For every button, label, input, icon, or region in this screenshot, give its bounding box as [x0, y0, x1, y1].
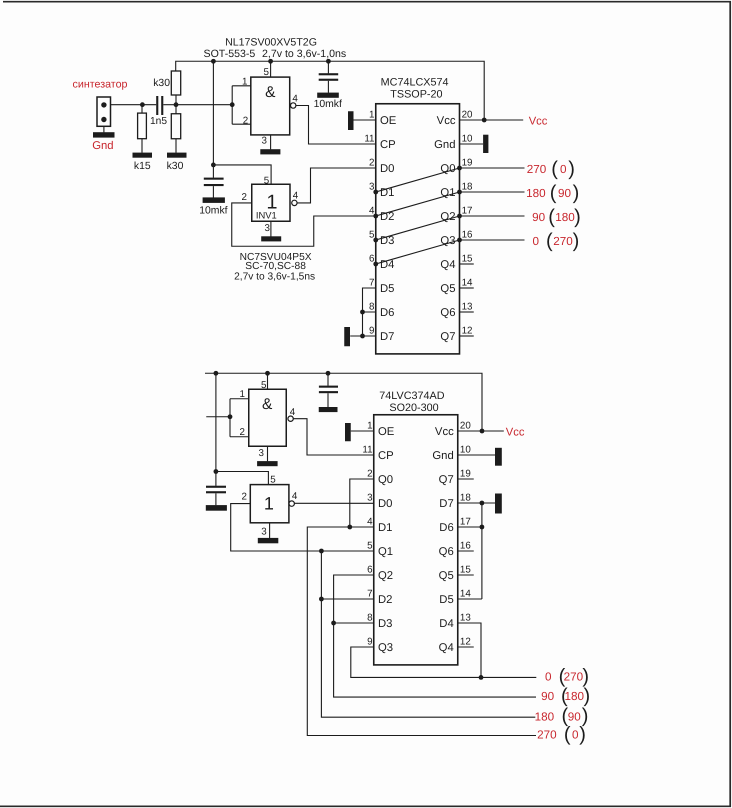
wire: U6 D4 to output line 0 [458, 623, 481, 677]
pin 4 of U5 (inverting output) [289, 501, 294, 506]
node: rail / inverter-supply junction [211, 59, 216, 64]
wire: U6 Q1 to U5 input [231, 504, 374, 551]
svg-text:D2: D2 [378, 594, 392, 606]
ground at U2 pin 3 [261, 236, 281, 241]
wire: Vcc rail (top section) [176, 61, 485, 120]
node: line 0 / D4 junction [479, 675, 484, 680]
pin 3 of U2 [270, 221, 272, 236]
svg-text:180: 180 [535, 710, 555, 723]
svg-text:4: 4 [367, 517, 373, 528]
svg-text:7: 7 [367, 589, 372, 600]
svg-text:5: 5 [270, 474, 276, 485]
pin 5 of U4 [267, 373, 269, 389]
diagonal: U3 Q3 feedback to D4 [376, 240, 460, 264]
svg-text:k30: k30 [167, 161, 184, 172]
ground at k15 [133, 153, 153, 158]
pin 4 of U4 (inverting output) [288, 416, 293, 421]
svg-text:): ) [582, 665, 589, 687]
wire: U1 output to U3 CP [296, 106, 376, 145]
svg-text:): ) [584, 685, 591, 707]
wire: rail to bottom supply node [215, 373, 217, 471]
diagonal: U3 Q0 feedback to D1 [376, 168, 460, 192]
capacitor 1n5 [156, 96, 158, 115]
svg-text:13: 13 [462, 302, 473, 313]
pin 4 of U2 (inverting output) [292, 200, 297, 205]
svg-text:OE: OE [378, 426, 395, 438]
tie bar at U6 D7 [495, 494, 502, 514]
wire: U6 D7 to tie bar [458, 502, 495, 504]
svg-text:0: 0 [572, 729, 579, 742]
svg-text:Vcc: Vcc [435, 426, 454, 438]
svg-text:9: 9 [369, 326, 374, 337]
svg-text:D3: D3 [378, 618, 392, 630]
svg-text:D7: D7 [439, 498, 453, 510]
svg-text:D5: D5 [439, 594, 453, 606]
capacitor 10mkf (rail bypass) [327, 61, 329, 73]
wire: U6 Q0 to D1 feedback [350, 479, 374, 527]
wire: U6 Q2 to D3 and output line 90 [334, 575, 536, 697]
svg-text:NL17SV00XV5T2G: NL17SV00XV5T2G [225, 37, 317, 49]
wire: rail to inverter supply node [212, 61, 214, 165]
svg-text:SOT-553-5: SOT-553-5 [204, 48, 256, 60]
resistor k30 (pull-up) [171, 71, 180, 95]
pin stub U3 Q7 [460, 335, 474, 337]
IC U6 74LVC374AD body [374, 415, 458, 665]
inverter U5 (bottom) [250, 485, 289, 523]
svg-text:Vcc: Vcc [529, 116, 548, 128]
svg-text:10: 10 [462, 134, 473, 145]
resistor k30 (pull-down) [175, 105, 177, 114]
pin 3 of U5 [269, 523, 271, 538]
svg-text:4: 4 [290, 407, 296, 418]
node: U3 Q0 [457, 166, 462, 171]
svg-text:OE: OE [380, 115, 397, 127]
node: k30 bias junction [174, 102, 179, 107]
svg-text:&: & [262, 396, 273, 413]
node: U1 input bracket junction [230, 102, 235, 107]
and-gate U1 (NL17SV00) [232, 86, 251, 124]
node: U6 D2 junction [319, 597, 324, 602]
node: inverter supply junction [211, 163, 216, 168]
wire: U6 D2 tie [321, 598, 373, 600]
svg-text:Q1: Q1 [440, 187, 455, 199]
node: k15 junction [140, 102, 145, 107]
tie-low bar at U6 OE [345, 423, 351, 441]
svg-text:Q6: Q6 [440, 307, 455, 319]
wire: U3 D5-D6-D7 tie [350, 288, 376, 336]
wire: 1n5 to k30 node [163, 104, 176, 106]
svg-text:): ) [579, 724, 586, 746]
node: U3 Vcc junction [482, 118, 487, 123]
svg-text:1: 1 [242, 76, 247, 87]
wire: U6 D3 tie [334, 622, 374, 624]
svg-text:2,7v to 3,6v-1,0ns: 2,7v to 3,6v-1,0ns [262, 48, 346, 60]
svg-text:синтезатор: синтезатор [73, 79, 128, 91]
svg-text:Q2: Q2 [378, 570, 393, 582]
svg-text:D6: D6 [439, 522, 453, 534]
svg-text:(: ( [564, 724, 571, 746]
node: D7 tie junction [360, 334, 365, 339]
wire: U6 Q3 to output line 0 [351, 647, 537, 677]
pin stub U6 Q7 [458, 478, 474, 480]
node: rail / bypass cap junction [326, 59, 331, 64]
svg-text:D1: D1 [378, 522, 392, 534]
svg-text:0: 0 [532, 235, 539, 248]
wire: U6 Vcc to rail and Vcc label [458, 430, 504, 432]
svg-text:10: 10 [460, 445, 471, 456]
svg-text:CP: CP [380, 139, 396, 151]
IC U3 MC74LCX574 body [376, 104, 460, 354]
svg-text:2: 2 [369, 158, 374, 169]
svg-text:15: 15 [460, 565, 471, 576]
node: U3 D2 [373, 214, 378, 219]
svg-text:3: 3 [261, 135, 267, 146]
svg-text:16: 16 [462, 230, 473, 241]
svg-text:270: 270 [537, 729, 557, 742]
svg-text:13: 13 [460, 613, 471, 624]
capacitor 10mkf (inverter supply) [212, 165, 214, 178]
wire: bar to U6 OE [351, 430, 374, 432]
svg-text:5: 5 [264, 175, 270, 186]
wire: U6 D7-D6-D5 tie [458, 503, 482, 599]
svg-text:1: 1 [264, 494, 274, 514]
wire: U6 Gnd to ground bar [458, 454, 495, 456]
svg-text:Vcc: Vcc [506, 427, 525, 439]
svg-text:90: 90 [532, 211, 546, 224]
svg-text:INV1: INV1 [256, 210, 277, 221]
svg-text:Q1: Q1 [378, 546, 393, 558]
svg-text:1: 1 [240, 389, 245, 400]
svg-text:D7: D7 [380, 331, 394, 343]
svg-text:Gnd: Gnd [432, 450, 453, 462]
node: U3 D1 [373, 190, 378, 195]
svg-text:Q3: Q3 [440, 235, 455, 247]
pin stub U3 Q4 [460, 263, 474, 265]
svg-text:D6: D6 [380, 307, 394, 319]
svg-text:D0: D0 [378, 498, 392, 510]
svg-text:1: 1 [367, 421, 372, 432]
svg-text:Q4: Q4 [440, 259, 455, 271]
svg-text:2,7v to 3,6v-1,5ns: 2,7v to 3,6v-1,5ns [234, 271, 315, 282]
svg-text:): ) [573, 182, 580, 204]
node: U3 Q1 [457, 190, 462, 195]
ground bar at U6 Gnd [495, 448, 502, 466]
node: rail / U1 pin5 junction [268, 59, 273, 64]
svg-text:3: 3 [265, 223, 271, 234]
pin 3 of U1 [270, 135, 272, 150]
svg-text:6: 6 [367, 565, 373, 576]
ground at 10mkf bypass [317, 93, 339, 98]
wire: U3 Q3 output 0 [460, 239, 525, 241]
pin 3 of U4 [267, 446, 269, 461]
node: U3 Q2 [457, 214, 462, 219]
node: bottom inverter supply junction [214, 469, 219, 474]
wire: U3 Q1 output 180 [460, 191, 525, 193]
svg-text:10mkf: 10mkf [199, 205, 227, 216]
svg-text:D4: D4 [439, 618, 453, 630]
node: U3 Q3 [457, 238, 462, 243]
wire: U3 Q0 output 270 [460, 167, 525, 169]
diagonal: U3 Q1 feedback to D2 [376, 192, 460, 216]
svg-text:(: ( [551, 158, 558, 180]
svg-text:D0: D0 [380, 163, 394, 175]
svg-text:4: 4 [292, 491, 298, 502]
svg-text:270: 270 [527, 163, 547, 176]
node: U4 input bracket junction [228, 414, 233, 419]
svg-text:2: 2 [241, 192, 246, 203]
node: rail / supply drop junction [214, 371, 219, 376]
wire: Vcc rail (bottom section) [205, 373, 482, 431]
svg-text:5: 5 [264, 67, 270, 78]
ground at bottom inverter supply cap [206, 505, 227, 511]
pin stub U6 Q6 [458, 550, 474, 552]
wire: U4 output to U6 CP [293, 419, 373, 455]
connector X1 (synthesizer input) [97, 97, 111, 126]
svg-text:90: 90 [558, 187, 572, 200]
svg-text:0: 0 [560, 163, 567, 176]
node: U3 D4 [373, 262, 378, 267]
svg-text:): ) [574, 206, 581, 228]
svg-text:11: 11 [362, 445, 372, 456]
svg-text:14: 14 [460, 589, 471, 600]
svg-text:Q6: Q6 [439, 546, 454, 558]
svg-text:180: 180 [526, 187, 546, 200]
svg-text:Q3: Q3 [378, 642, 393, 654]
svg-text:Vcc: Vcc [437, 115, 456, 127]
wire: connector pin 2 to ground [103, 126, 105, 132]
svg-text:5: 5 [367, 541, 373, 552]
node: rail / U4 pin5 junction [265, 371, 270, 376]
ground at k30 pull-down [167, 153, 187, 158]
wire: input stub to U4 inputs [206, 416, 230, 418]
svg-text:k30: k30 [153, 78, 170, 89]
svg-text:Gnd: Gnd [92, 140, 113, 152]
ground at U4 pin 3 [257, 461, 278, 466]
svg-text:TSSOP-20: TSSOP-20 [390, 88, 442, 100]
svg-text:CP: CP [378, 450, 394, 462]
wire: U6 D1 to output line 270 [307, 527, 536, 736]
tie-low bar at U3 OE [348, 111, 354, 130]
ground at connector [93, 132, 115, 137]
svg-text:8: 8 [367, 613, 373, 624]
ground at bottom bypass cap [319, 407, 338, 412]
svg-text:k15: k15 [134, 161, 151, 172]
pin 4 of U1 (inverting output) [291, 103, 296, 108]
node: U6 D6 junction [480, 525, 485, 530]
svg-text:5: 5 [261, 380, 267, 391]
svg-text:20: 20 [462, 110, 473, 121]
svg-text:&: & [265, 84, 276, 101]
svg-text:18: 18 [460, 493, 471, 504]
wire: connector to 1n5 capacitor [111, 104, 157, 106]
pin stub U6 Q4 [458, 646, 474, 648]
svg-text:(: ( [546, 230, 553, 252]
svg-text:8: 8 [369, 302, 375, 313]
svg-text:2: 2 [367, 469, 372, 480]
svg-text:3: 3 [261, 526, 267, 537]
svg-text:14: 14 [462, 278, 473, 289]
svg-text:): ) [573, 230, 580, 252]
resistor k15 [141, 105, 143, 113]
svg-text:18: 18 [462, 182, 473, 193]
capacitor (bottom rail bypass) [327, 373, 329, 386]
pin stub U3 Q5 [460, 287, 474, 289]
node: rail / bypass junction [326, 371, 331, 376]
svg-text:0: 0 [545, 671, 552, 684]
svg-text:(: ( [550, 182, 557, 204]
capacitor (bottom inverter supply) [215, 472, 217, 486]
wire: supply node to U5 pin 5 [216, 472, 269, 485]
pin stub U3 Q6 [460, 311, 474, 313]
svg-text:4: 4 [292, 94, 298, 105]
node: U6 D3 junction [331, 621, 336, 626]
svg-text:270: 270 [553, 235, 573, 248]
svg-text:180: 180 [555, 211, 575, 224]
node: U6 Q1 junction [319, 549, 324, 554]
svg-text:12: 12 [462, 326, 473, 337]
svg-text:17: 17 [462, 206, 473, 217]
wire: bar to U3 OE [354, 119, 376, 121]
ground at U5 pin 3 [258, 538, 279, 543]
svg-text:270: 270 [564, 671, 584, 684]
node: U6 D7 junction [480, 501, 485, 506]
ground bar at U3 Gnd [483, 135, 488, 153]
svg-text:): ) [568, 158, 575, 180]
ground at 10mkf inverter supply [203, 197, 225, 203]
node: U6 D1 junction [347, 525, 352, 530]
svg-text:10mkf: 10mkf [314, 99, 342, 110]
svg-text:11: 11 [364, 134, 374, 145]
svg-text:Gnd: Gnd [434, 139, 455, 151]
svg-text:Q0: Q0 [378, 474, 393, 486]
node: U6 Vcc junction [480, 429, 485, 434]
svg-text:17: 17 [460, 517, 471, 528]
wire: U2 output to U3 D0 [297, 168, 376, 203]
svg-text:Q2: Q2 [440, 211, 455, 223]
svg-text:D5: D5 [380, 283, 394, 295]
svg-text:3: 3 [259, 448, 265, 459]
svg-text:Q5: Q5 [440, 283, 455, 295]
node: D6 tie junction [360, 310, 365, 315]
svg-text:16: 16 [460, 541, 471, 552]
wire: signal node to U1 inputs [176, 104, 232, 106]
svg-text:2: 2 [240, 427, 245, 438]
svg-text:19: 19 [460, 469, 471, 480]
and-gate U4 (bottom) [230, 399, 249, 437]
svg-text:74LVC374AD: 74LVC374AD [379, 390, 444, 402]
svg-text:SO20-300: SO20-300 [389, 402, 438, 414]
diagonal: U3 Q2 feedback to D3 [376, 216, 460, 240]
wire: Q1 feedback to D2 and output line 180 [321, 551, 535, 717]
svg-text:Q0: Q0 [440, 163, 455, 175]
wire: U3 D2 to U2 input [232, 203, 376, 246]
wire: U5 output to U6 D0 [294, 502, 373, 504]
svg-text:2: 2 [243, 115, 248, 126]
svg-text:20: 20 [460, 421, 471, 432]
pin stub U6 Q5 [458, 574, 474, 576]
wire: U3 Q2 output 90 [460, 215, 525, 217]
ground at U1 pin 3 [260, 149, 280, 154]
svg-text:7: 7 [369, 278, 374, 289]
svg-text:1: 1 [369, 110, 374, 121]
svg-text:12: 12 [460, 637, 471, 648]
svg-text:15: 15 [462, 254, 473, 265]
svg-text:180: 180 [564, 690, 584, 703]
svg-text:MC74LCX574: MC74LCX574 [381, 76, 449, 88]
node: U3 D3 [373, 238, 378, 243]
svg-text:90: 90 [568, 710, 582, 723]
svg-text:Q7: Q7 [440, 331, 455, 343]
wire: U3 Gnd to ground bar [460, 143, 484, 145]
svg-text:1n5: 1n5 [150, 116, 167, 127]
svg-text:4: 4 [293, 191, 299, 202]
svg-text:19: 19 [462, 158, 473, 169]
svg-text:9: 9 [367, 637, 372, 648]
svg-text:Q7: Q7 [439, 474, 454, 486]
svg-text:90: 90 [541, 690, 555, 703]
wire: U3 Vcc to rail and Vcc label [460, 119, 524, 121]
svg-text:Q4: Q4 [439, 642, 454, 654]
svg-text:Q5: Q5 [439, 570, 454, 582]
inverter U2 (NC7SVU04) [252, 184, 290, 221]
svg-text:3: 3 [367, 493, 373, 504]
svg-text:(: ( [548, 206, 555, 228]
tie bar at U3 D7 [344, 327, 350, 346]
svg-text:2: 2 [241, 492, 246, 503]
pin 5 of U1 [270, 61, 272, 77]
wire: supply node to U2 pin 5 [213, 165, 271, 184]
